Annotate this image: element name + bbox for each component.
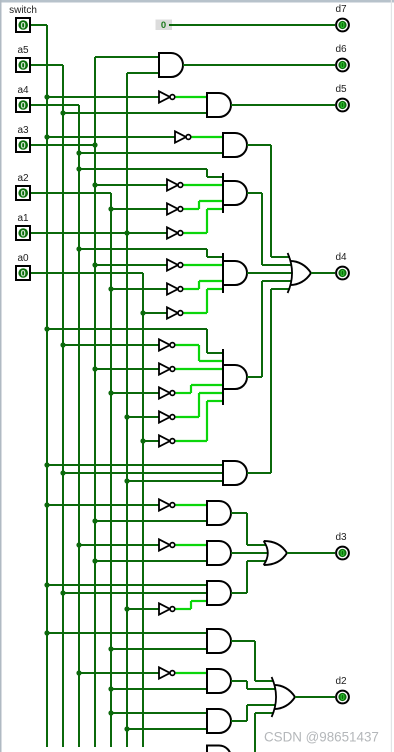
inverter N7 [167,283,183,294]
wire a1 tap to AND U7 input 3 [127,480,223,482]
wire N11 output jog to AND U6 input 4 [176,392,191,394]
junction dot (63,473) [60,470,65,475]
wire a2 tap to AND U11 input 2 [111,648,207,650]
wire a2 tap to AND U12 input 2 [111,688,207,690]
wire a4 tap to NOT N15 input [79,544,159,546]
inverter N2 [175,131,191,142]
wire N6 output to AND U5 input 2 [184,264,223,266]
vertical bus wire a3 (x=95) [94,57,96,747]
AND gate U4 [223,173,247,213]
junction dot (95,369) [92,366,97,371]
AND gate U9 [207,541,231,565]
junction dot (111,209) [108,206,113,211]
svg-text:0: 0 [161,20,166,31]
junction dot (111,713) [108,710,113,715]
frame right border [391,0,392,752]
wire N3 output to AND U4 input 2 [184,184,223,186]
output pin d4 (value 0) [335,252,348,279]
wire switch tap to NOT N14 input [47,504,159,506]
junction dot (111,289) [108,286,113,291]
wire a1 tap to AND U1 input 2 [127,72,159,74]
wire a2 pin to column [31,192,111,194]
junction dot (79,153) [76,150,81,155]
wire stub to AND U4 input 1 [207,176,223,178]
input pin a4 (value 0) [16,85,30,112]
svg-text:0: 0 [340,692,345,702]
wire a2 tap to AND U13 input 1 [111,712,207,714]
input pin a3 (value 0) [16,125,30,152]
svg-text:a5: a5 [17,45,29,56]
junction dot (127,233) [124,230,129,235]
junction dot (79,249) [76,246,81,251]
AND gate U12 [207,669,231,693]
svg-text:d5: d5 [335,84,347,95]
svg-text:d6: d6 [335,44,347,55]
junction dot (63,113) [60,110,65,115]
wire N10 output to AND U6 input 3 [176,368,223,370]
wire jog down into AND U4 input 1 [206,169,208,177]
OR gate O3 [272,677,295,717]
svg-text:0: 0 [340,100,345,110]
wire AND U13 output to OR O3 input 3 [231,720,247,722]
wire a1 tap to AND U13 input 2 [127,728,207,730]
wire a5 tap to AND U2 input 2 [63,112,207,114]
wire AND U11 output to OR O3 input 1 [231,640,255,642]
junction dot (79,169) [76,166,81,171]
wire AND U8 output to OR O2 input 1 [231,512,247,514]
svg-text:0: 0 [21,268,26,279]
inverter N14 [159,499,175,510]
vertical bus wire switch (x=47) [46,25,48,747]
junction dot (95,521) [92,518,97,523]
svg-text:a0: a0 [17,253,29,264]
junction dot (95,145) [92,142,97,147]
input pin a1 (value 0) [16,213,30,240]
wire N13 output jog to AND U6 input 6 [176,440,207,442]
inverter N3 [167,179,183,190]
inverter N17 [159,667,175,678]
svg-text:0: 0 [340,20,345,30]
wire N17 output to AND U12 input 1 [176,672,207,674]
inverter N13 [159,435,175,446]
svg-text:0: 0 [21,100,26,111]
AND gate U11 [207,629,231,653]
wire a1 tap to NOT N12 input [127,416,159,418]
wire a4 tap toward AND U4 input 1 [79,168,207,170]
input pin a5 (value 0) [16,45,30,72]
wire switch tap toward AND U6 input 1 [47,328,207,330]
wire N9 output jog to AND U6 input 2 [176,344,199,346]
vertical bus wire a0 (x=143) [142,273,144,747]
wire AND U5 output to OR O1 input 3 [247,272,292,274]
wire switch pin to column [31,24,47,26]
inverter N10 [159,363,175,374]
wire AND U14 output to OR O3 input 4 [254,713,256,752]
wire a3 pin to column (junction at x=95) [31,144,95,146]
svg-text:0: 0 [340,268,345,278]
wire AND U9 output to OR O2 input 2 [231,552,269,554]
wire N12 output jog to AND U6 input 5 [176,416,199,418]
wire N8 output jog to AND U5 input 4 [184,312,207,314]
junction dot (95,561) [92,558,97,563]
junction dot (95,185) [92,182,97,187]
wire a5 pin to column [31,64,63,66]
junction dot (127,729) [124,726,129,731]
wire AND U7 output to OR O1 input 5 [247,472,271,474]
output pin d2 (value 0) [335,676,348,703]
junction dot (79,673) [76,670,81,675]
inverter N12 [159,411,175,422]
wire AND U2 output to pin d5 [231,104,335,106]
AND gate U2 [207,93,231,117]
wire AND U12 output to OR O3 input 2 [231,680,247,682]
vertical bus wire a4 (x=79) [78,105,80,747]
junction dot (111,649) [108,646,113,651]
frame top border [0,0,394,3]
junction dot (63,593) [60,590,65,595]
OR gate O2 [264,541,287,565]
wire a4 tap to NOT N17 input [79,672,159,674]
wire N7 output jog to AND U5 input 3 [184,288,199,290]
junction dot (111,393) [108,390,113,395]
svg-text:a2: a2 [17,173,29,184]
junction dot (63,345) [60,342,65,347]
junction dot (127,481) [124,478,129,483]
svg-text:0: 0 [21,140,26,151]
junction dot (127,609) [124,606,129,611]
junction dot (143,441) [140,438,145,443]
junction dot (47,329) [44,326,49,331]
svg-text:CSDN @98651437: CSDN @98651437 [264,730,379,745]
junction dot (79,545) [76,542,81,547]
wire N1 output to AND U2 input 1 [176,96,207,98]
svg-text:0: 0 [21,228,26,239]
wire a3 tap to AND U8 input 2 [95,520,207,522]
inverter N4 [167,203,183,214]
wire switch tap to AND U10 input 1 [47,584,207,586]
OR gate O1 [288,253,311,293]
wire jog down into AND U5 input 1 [206,249,208,257]
junction dot (47,465) [44,462,49,467]
wire switch tap to AND U7 input 1 [47,464,223,466]
junction dot (143,313) [140,310,145,315]
wire AND U1 output to pin d6 [183,64,335,66]
wire N4 output jog to AND U4 input 3 [184,208,199,210]
wire N15 output to AND U9 input 1 [176,544,207,546]
inverter N8 [167,307,183,318]
junction dot (47,633) [44,630,49,635]
inverter N11 [159,387,175,398]
wire a5 tap to AND U7 input 2 [63,472,223,474]
wire a0 pin to column [31,272,143,274]
wire N5 output jog to AND U4 input 4 [184,232,207,234]
svg-text:d4: d4 [335,252,347,263]
junction dot (47,137) [44,134,49,139]
wire a3 tap to NOT N10 input [95,368,159,370]
svg-text:switch: switch [9,5,37,16]
output pin d6 (value 0) [335,44,348,71]
wire AND U3 output to OR O1 input 1 [247,144,271,146]
output pin d5 (value 0) [335,84,348,111]
vertical bus wire a2 (x=111) [110,193,112,747]
wire a3 tap to NOT N3 input [95,184,167,186]
junction dot (47,585) [44,582,49,587]
wire a3 tap to AND U1 input 1 [95,56,159,58]
wire OR O1 output to pin d4 [311,272,335,274]
input pin switch (value 0) [9,5,37,32]
svg-text:a1: a1 [17,213,29,224]
AND gate U10 [207,581,231,605]
wire constant to output pin d7 [169,24,335,26]
svg-text:a3: a3 [17,125,29,136]
svg-text:0: 0 [21,20,26,31]
junction dot (47,97) [44,94,49,99]
junction dot (127,417) [124,414,129,419]
AND gate U13 [207,709,231,733]
wire OR O2 output to pin d3 [287,552,335,554]
inverter N16 [159,603,175,614]
junction dot (111,689) [108,686,113,691]
svg-text:0: 0 [340,548,345,558]
vertical bus wire a1 (x=127) [126,73,128,747]
AND gate U7 [223,461,247,485]
svg-text:a4: a4 [17,85,29,96]
wire AND U4 output to OR O1 input 2 [247,192,262,194]
wire switch tap to AND U11 input 1 [47,632,207,634]
svg-text:0: 0 [340,60,345,70]
AND gate U14 [207,746,231,752]
output pin d3 (value 0) [335,532,348,559]
wire a5 tap to NOT N9 input [63,344,159,346]
wire a2 tap to NOT N7 input [111,288,167,290]
wire N2 output to AND U3 input 1 [192,136,223,138]
output pin d7 (value 0) [335,4,348,31]
input pin a2 (value 0) [16,173,30,200]
AND gate U1 [159,53,183,77]
wire a1 tap to NOT N16 input [127,608,159,610]
wire stub to AND U5 input 1 [207,256,223,258]
input pin a0 (value 0) [16,253,30,280]
wire a4 pin to column [31,104,79,106]
inverter N6 [167,259,183,270]
frame left border [0,0,2,752]
AND gate U8 [207,501,231,525]
wire a2 tap to NOT N11 input [111,392,159,394]
AND gate U6 [223,349,247,405]
wire a1 pin to NOT N5 row (junction at x=127) [31,232,167,234]
vertical bus wire a5 (x=63) [62,65,64,747]
wire AND U10 output to OR O2 input 3 [231,592,247,594]
wire a0 tap to NOT N13 input [143,440,159,442]
wire a2 tap to NOT N4 input [111,208,167,210]
svg-text:0: 0 [21,188,26,199]
svg-text:d3: d3 [335,532,347,543]
wire stub to AND U6 input 1 [207,352,223,354]
wire a3 tap to NOT N6 input [95,264,167,266]
svg-text:0: 0 [21,60,26,71]
wire jog down into AND U6 input 1 [206,329,208,353]
wire a4 tap toward AND U5 input 1 [79,248,207,250]
inverter N15 [159,539,175,550]
wire OR O3 output to pin d2 [295,696,335,698]
wire a3 tap to AND U9 input 2 [95,560,207,562]
inverter N5 [167,227,183,238]
junction dot (47,505) [44,502,49,507]
junction dot (95,265) [92,262,97,267]
constant 0 (drives d7) [156,20,173,32]
wire AND U6 output to OR O1 input 4 [247,376,262,378]
inverter N1 [159,91,175,102]
wire a4 tap to AND U3 input 2 [79,152,223,154]
AND gate U3 [223,133,247,157]
wire switch tap to NOT N1 input [47,96,159,98]
svg-text:d7: d7 [335,4,347,15]
AND gate U5 [223,253,247,293]
wire N16 output jog to AND U10 input 3 [176,608,191,610]
inverter N9 [159,339,175,350]
wire switch tap to NOT N2 input [47,136,175,138]
svg-text:d2: d2 [335,676,347,687]
wire N14 output to AND U8 input 1 [176,504,207,506]
wire a5 tap to AND U10 input 2 [63,592,207,594]
wire a0 tap to NOT N8 input [143,312,167,314]
